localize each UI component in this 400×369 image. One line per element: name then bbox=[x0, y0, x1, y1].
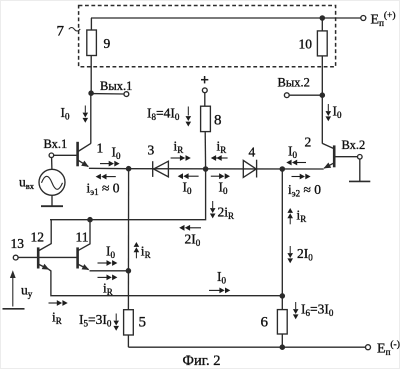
node A (emitter 1 / column 5) bbox=[127, 167, 131, 171]
wire base 12-13 bbox=[18, 256, 78, 258]
transistor Q2 collector bbox=[322, 143, 334, 148]
terminal Вых.1 circle bbox=[124, 92, 129, 97]
transistor Q1 emitter bbox=[78, 160, 88, 166]
node top of resistor 10 bbox=[320, 16, 324, 20]
arrow iR right (u_y wire left) bbox=[49, 300, 68, 306]
arrow I0 down (right column) bbox=[326, 104, 332, 121]
svg-text:Вых.2: Вых.2 bbox=[278, 76, 310, 90]
wire emitter 11 to node bbox=[90, 270, 129, 272]
svg-text:I0: I0 bbox=[183, 180, 193, 197]
node emitter 11 bbox=[126, 269, 130, 273]
terminal Вх.2 circle bbox=[358, 155, 363, 160]
wire resistor 6 to rail bbox=[281, 334, 283, 347]
svg-text:5: 5 bbox=[139, 315, 147, 331]
wire resistor 9 top bbox=[90, 18, 92, 30]
node collector 11 bbox=[88, 218, 92, 222]
svg-text:iR: iR bbox=[141, 244, 151, 261]
wire to Вых.1 terminal bbox=[91, 93, 124, 95]
wire + to resistor 8 bbox=[204, 93, 206, 107]
arrow 2I0 down (column 6) bbox=[287, 246, 293, 263]
diode D3 triangle bbox=[154, 161, 169, 177]
svg-text:Вх.2: Вх.2 bbox=[342, 138, 366, 152]
wire column 6 bbox=[281, 169, 283, 310]
transistor Q12 collector bbox=[38, 220, 51, 251]
transistor Q1 emitter arrowhead bbox=[81, 161, 89, 167]
svg-text:iэ1 ≈ 0: iэ1 ≈ 0 bbox=[87, 181, 120, 198]
svg-text:Вых.1: Вых.1 bbox=[100, 79, 132, 93]
arrow 2iR down bbox=[210, 201, 216, 218]
transistor Q11 emitter bbox=[78, 264, 89, 270]
wire terminal to source bbox=[51, 158, 53, 170]
node rail resistor 6 bbox=[280, 345, 284, 349]
svg-text:2I0: 2I0 bbox=[297, 246, 313, 263]
arrow I6 down bbox=[293, 302, 299, 319]
wire center column 2iR bbox=[50, 169, 206, 220]
svg-text:2I0: 2I0 bbox=[185, 232, 201, 249]
svg-text:11: 11 bbox=[76, 230, 89, 245]
arrow I0 right (collector 1 region) bbox=[100, 161, 120, 167]
svg-text:iэ2 ≈ 0: iэ2 ≈ 0 bbox=[288, 182, 321, 199]
arrow iR up (column 5) bbox=[134, 242, 140, 258]
resistor R10 bbox=[317, 31, 327, 56]
svg-text:I8=4I0: I8=4I0 bbox=[147, 106, 180, 123]
svg-text:uy: uy bbox=[21, 283, 33, 300]
diode D4 triangle bbox=[243, 160, 256, 177]
arrow I0 right (diode 4 bottom) bbox=[211, 173, 230, 179]
svg-text:Eп(-): Eп(-) bbox=[377, 339, 400, 357]
svg-text:iR: iR bbox=[103, 281, 113, 298]
transistor Q12 base bar bbox=[37, 247, 40, 268]
arrow ie2 right bbox=[292, 174, 311, 180]
svg-text:2: 2 bbox=[305, 135, 312, 150]
svg-text:iR: iR bbox=[174, 139, 184, 156]
node center (resistor 8) bbox=[204, 167, 208, 171]
wire resistor 5 to rail bbox=[127, 335, 129, 347]
transistor Q1 base bar bbox=[76, 142, 79, 167]
wire column 5 bbox=[127, 169, 129, 310]
svg-text:2iR: 2iR bbox=[218, 205, 235, 222]
transistor Q11 emitter arrowhead bbox=[82, 264, 90, 270]
arrow iR right (diode 3 top) bbox=[171, 155, 191, 161]
transistor Q2 emitter bbox=[324, 163, 334, 168]
arrow iR up (column 6) bbox=[287, 208, 293, 224]
wire resistor 8 to center node bbox=[204, 132, 206, 169]
svg-text:Eп(+): Eп(+) bbox=[371, 10, 396, 28]
transistor Q11 base bar bbox=[76, 247, 79, 268]
ground Вх.2 wire bbox=[359, 159, 361, 181]
transistor Q12 emitter bbox=[38, 264, 49, 269]
svg-text:13: 13 bbox=[11, 236, 25, 251]
wire base 1 from Вх.1 bbox=[54, 154, 78, 156]
source u_vx circle bbox=[39, 169, 65, 195]
wire source to ground bbox=[51, 195, 53, 206]
svg-text:8: 8 bbox=[214, 113, 222, 129]
terminal 13 circle bbox=[13, 255, 18, 260]
svg-text:9: 9 bbox=[104, 36, 111, 51]
transistor Q1 collector bbox=[78, 143, 91, 151]
svg-text:I0: I0 bbox=[217, 269, 227, 286]
svg-text:Вх.1: Вх.1 bbox=[44, 137, 68, 151]
wire main middle rail bbox=[89, 167, 324, 170]
u_y arrow bbox=[12, 274, 14, 307]
label + bbox=[201, 76, 208, 83]
wire top rail bbox=[91, 17, 361, 19]
node B (diode 4 / column 6) bbox=[280, 167, 284, 171]
arrow I0 down (left column) bbox=[83, 106, 89, 123]
node Вых.1 bbox=[89, 91, 93, 95]
svg-text:10: 10 bbox=[299, 37, 313, 52]
resistor R6 bbox=[277, 310, 287, 334]
transistor Q2 emitter arrowhead bbox=[324, 163, 332, 169]
svg-text:Фиг. 2: Фиг. 2 bbox=[183, 353, 221, 369]
ground u_vx bar bbox=[41, 205, 63, 207]
diode D3 bar bbox=[152, 161, 154, 177]
arrow I0 right (emitter 11) bbox=[98, 260, 118, 266]
svg-text:1: 1 bbox=[97, 141, 104, 156]
resistor R9 bbox=[87, 30, 97, 56]
svg-text:I0: I0 bbox=[288, 144, 298, 161]
svg-text:iR: iR bbox=[297, 208, 307, 225]
svg-text:4: 4 bbox=[249, 145, 256, 160]
svg-text:uвх: uвх bbox=[19, 175, 35, 192]
arrow iR left (diode 4 top) bbox=[211, 155, 228, 161]
terminal + circle bbox=[202, 88, 207, 93]
wire bottom rail bbox=[128, 346, 365, 348]
node Вых.2 bbox=[320, 93, 324, 97]
terminal Eп(+) circle bbox=[361, 16, 366, 21]
transistor Q12 emitter arrowhead bbox=[42, 264, 50, 270]
svg-text:I0: I0 bbox=[219, 180, 229, 197]
svg-text:6: 6 bbox=[261, 315, 269, 331]
source sine bbox=[42, 176, 63, 189]
svg-text:7: 7 bbox=[57, 24, 65, 40]
wire to Вых.2 terminal bbox=[289, 94, 322, 96]
wire base 2 to Вх.2 bbox=[334, 156, 357, 158]
leader squiggle for 7 bbox=[69, 28, 80, 32]
transistor Q2 base bar bbox=[333, 145, 336, 167]
wire node to transistor 1 collector bbox=[90, 93, 92, 143]
dashed box 7 bbox=[79, 6, 336, 67]
ground Вх.2 bar bbox=[349, 180, 370, 182]
u_y bar bbox=[3, 308, 25, 310]
wire resistor 10 bottom to node Вых.2 bbox=[321, 56, 323, 95]
wire resistor 10 top bbox=[321, 18, 323, 31]
wire emitter 12 down bbox=[49, 269, 282, 295]
diode D4 bar bbox=[256, 160, 258, 178]
svg-text:I0: I0 bbox=[106, 244, 116, 261]
arrow 2I0 left (under wire 220) bbox=[179, 225, 201, 231]
arrow iR right (emitter 11 lower) bbox=[98, 275, 118, 281]
svg-text:I0: I0 bbox=[61, 105, 71, 122]
node u_y wire / column 6 bbox=[280, 294, 284, 298]
svg-text:I6=3I0: I6=3I0 bbox=[301, 302, 334, 319]
svg-text:iR: iR bbox=[217, 139, 227, 156]
terminal Eп(-) circle bbox=[366, 345, 371, 350]
resistor R8 bbox=[201, 106, 211, 131]
arrow ie1 left bbox=[96, 174, 116, 180]
svg-text:I0: I0 bbox=[333, 104, 343, 121]
arrow I0 right (u_y wire right) bbox=[209, 288, 230, 294]
arrow I0 left (emitter 2 top) bbox=[286, 160, 306, 166]
terminal Вх.1 circle bbox=[49, 153, 54, 158]
arrow I5 down bbox=[113, 314, 119, 331]
svg-text:I5=3I0: I5=3I0 bbox=[79, 312, 112, 329]
resistor R5 bbox=[124, 310, 134, 335]
transistor Q11 collector bbox=[78, 220, 90, 251]
arrow I8 down bbox=[186, 107, 192, 127]
svg-text:iR: iR bbox=[52, 310, 62, 327]
arrow I0 left (diode 3 bottom) bbox=[178, 173, 199, 179]
svg-text:12: 12 bbox=[31, 230, 45, 245]
wire resistor 9 bottom to node Вых.1 bbox=[90, 56, 92, 94]
svg-text:I0: I0 bbox=[112, 145, 122, 162]
wire node to transistor 2 collector bbox=[321, 95, 323, 143]
terminal Вых.2 circle bbox=[284, 93, 289, 98]
svg-text:3: 3 bbox=[148, 143, 155, 158]
